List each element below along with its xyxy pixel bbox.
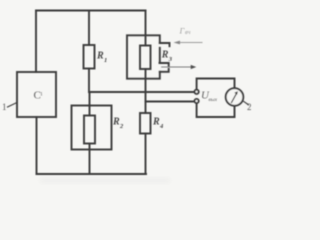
wire: right drop from top bus to bolometer box	[145, 11, 147, 36]
label R3	[161, 50, 173, 64]
svg-text:R: R	[112, 117, 120, 128]
wire: R1 top lead from bus	[88, 11, 90, 46]
label U out	[201, 90, 218, 104]
svg-text:3: 3	[168, 56, 173, 63]
wire: generator bottom drop	[36, 117, 38, 174]
bolometer chamber box with waveguide mouth	[127, 35, 160, 78]
R2 shield box	[72, 106, 112, 150]
meter (indicator 2)	[226, 88, 244, 106]
svg-text:R: R	[152, 117, 160, 128]
svg-text:1: 1	[2, 102, 7, 112]
wire: node B drop to R2 box	[89, 92, 91, 106]
label R2	[112, 117, 124, 131]
svg-text:4: 4	[159, 123, 164, 130]
label C1 inside generator	[34, 90, 44, 102]
output terminal bottom	[195, 99, 199, 103]
output terminal top	[195, 90, 199, 94]
wire: bottom bus	[37, 173, 147, 175]
svg-text:R: R	[96, 51, 104, 62]
waveguide mouth bottom stub	[160, 69, 169, 72]
wire: left drop from top bus to generator	[35, 11, 37, 73]
indicator loop wiring upper	[197, 79, 235, 90]
reflected power arrow (points right)	[162, 65, 197, 69]
wire: lower output wire to terminal	[146, 101, 195, 103]
svg-text:вых: вых	[209, 97, 218, 103]
svg-text:1: 1	[40, 92, 43, 98]
label R1	[96, 51, 107, 65]
svg-text:1: 1	[104, 57, 107, 64]
wire: R3 bottom lead	[145, 69, 147, 79]
scan background mottling	[40, 178, 170, 183]
label R4	[152, 117, 164, 131]
wire: R2 bottom lead inside box	[89, 144, 91, 150]
wire: R4 bottom lead to bottom bus	[145, 134, 147, 175]
waveguide mouth top stub	[160, 43, 170, 46]
generator G1 box	[17, 72, 56, 117]
resistor R3 (bolometer)	[140, 46, 151, 70]
svg-text:вч: вч	[185, 30, 191, 36]
resistor R1	[84, 45, 95, 69]
incident power arrow (points left)	[174, 41, 203, 45]
label 2	[247, 102, 252, 112]
leader line to label 1	[8, 103, 18, 108]
leader line to label 2	[243, 101, 249, 105]
indicator loop wiring lower	[197, 103, 235, 117]
wire: top output wire node B to terminal	[89, 91, 194, 93]
resistor R2	[84, 116, 95, 144]
waveguide right edge segment beside R3	[159, 48, 161, 62]
wire: R2 box bottom drop to bottom bus	[89, 150, 91, 175]
node D junction dot	[144, 91, 147, 94]
wire: R3 top lead	[145, 35, 147, 45]
svg-text:R: R	[161, 50, 169, 61]
wire: R2 top lead inside box	[89, 106, 91, 116]
wire: top supply bus	[36, 10, 146, 12]
svg-text:2: 2	[247, 102, 252, 112]
label 1	[2, 102, 7, 112]
wire: R3 branch drop to R4	[145, 79, 147, 113]
wire: R1 bottom lead to node B	[88, 69, 90, 93]
resistor R4	[140, 113, 151, 134]
svg-text:2: 2	[119, 123, 124, 130]
label Gvch incident power	[179, 26, 191, 37]
waveguide mouth middle stub	[160, 63, 169, 66]
